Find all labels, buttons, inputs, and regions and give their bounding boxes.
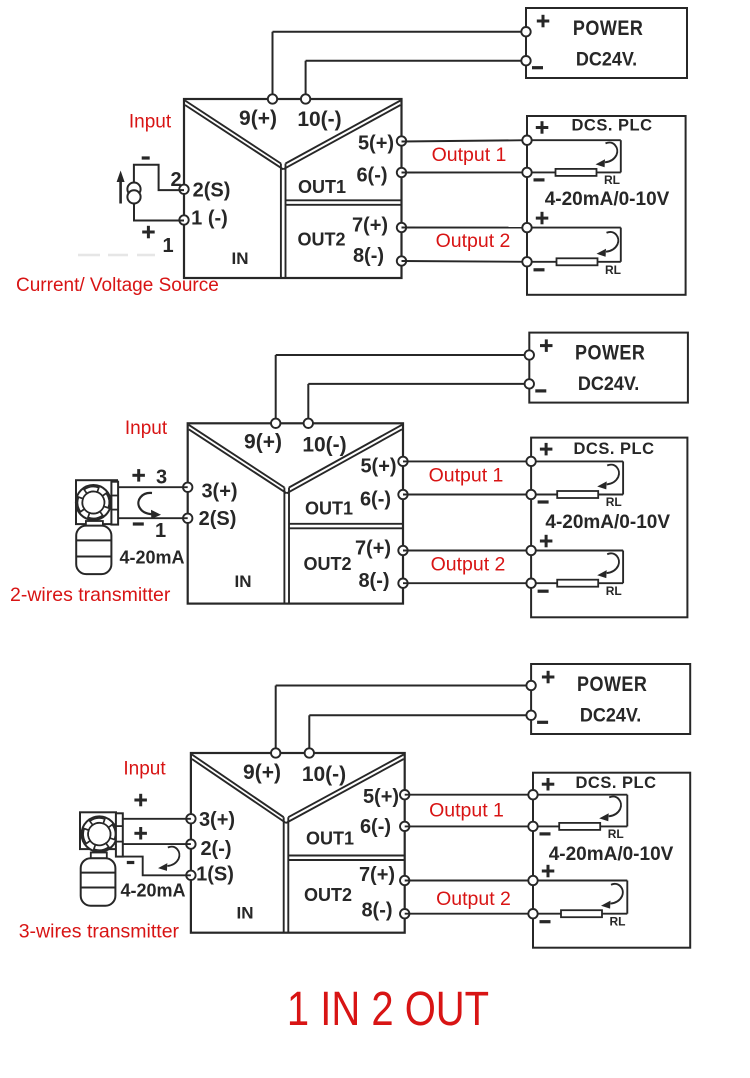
svg-text:IN: IN (237, 904, 254, 923)
svg-text:8(-): 8(-) (358, 570, 389, 592)
svg-text:1 (-): 1 (-) (191, 208, 228, 230)
svg-text:RL: RL (604, 173, 620, 187)
svg-text:OUT1: OUT1 (305, 499, 353, 519)
svg-text:7(+): 7(+) (352, 215, 388, 237)
svg-text:IN: IN (235, 572, 252, 591)
svg-text:8(-): 8(-) (353, 245, 384, 267)
svg-text:1 IN 2 OUT: 1 IN 2 OUT (287, 983, 489, 1036)
svg-text:Output 2: Output 2 (436, 230, 511, 252)
svg-text:Current/ Voltage Source: Current/ Voltage Source (16, 275, 219, 296)
svg-text:6(-): 6(-) (356, 165, 387, 187)
svg-text:1(S): 1(S) (196, 864, 234, 886)
svg-text:5(+): 5(+) (360, 456, 396, 478)
svg-text:3-wires transmitter: 3-wires transmitter (19, 921, 180, 943)
svg-text:Output 1: Output 1 (432, 144, 507, 166)
svg-text:IN: IN (232, 249, 249, 268)
svg-text:POWER: POWER (575, 341, 645, 365)
svg-text:5(+): 5(+) (358, 133, 394, 155)
svg-text:9(+): 9(+) (239, 107, 277, 130)
svg-text:2(-): 2(-) (200, 838, 231, 860)
svg-text:OUT1: OUT1 (306, 829, 354, 849)
svg-text:4-20mA/0-10V: 4-20mA/0-10V (549, 844, 674, 865)
svg-text:DC24V.: DC24V. (580, 705, 641, 727)
svg-text:4-20mA/0-10V: 4-20mA/0-10V (545, 512, 670, 533)
svg-text:2: 2 (170, 169, 181, 191)
svg-text:2(S): 2(S) (199, 508, 237, 530)
svg-text:POWER: POWER (577, 673, 647, 697)
svg-text:5(+): 5(+) (363, 786, 399, 808)
svg-text:6(-): 6(-) (360, 489, 391, 511)
svg-text:10(-): 10(-) (302, 763, 346, 786)
svg-text:DCS. PLC: DCS. PLC (573, 440, 654, 458)
svg-text:3(+): 3(+) (199, 809, 235, 831)
svg-text:7(+): 7(+) (355, 538, 391, 560)
svg-text:POWER: POWER (573, 17, 643, 41)
svg-text:9(+): 9(+) (244, 431, 282, 454)
svg-text:4-20mA/0-10V: 4-20mA/0-10V (545, 189, 670, 210)
svg-text:RL: RL (608, 827, 624, 841)
svg-text:Output 1: Output 1 (429, 465, 504, 487)
svg-text:4-20mA: 4-20mA (120, 881, 185, 901)
svg-text:3: 3 (156, 467, 167, 489)
svg-text:Output 2: Output 2 (436, 888, 511, 910)
svg-text:1: 1 (155, 520, 166, 542)
svg-text:10(-): 10(-) (297, 108, 341, 131)
svg-text:2-wires transmitter: 2-wires transmitter (10, 584, 171, 606)
svg-text:DC24V.: DC24V. (576, 49, 637, 71)
svg-text:8(-): 8(-) (361, 900, 392, 922)
svg-text:RL: RL (606, 584, 622, 598)
svg-text:Output 2: Output 2 (431, 554, 506, 576)
svg-text:RL: RL (605, 263, 621, 277)
svg-text:4-20mA: 4-20mA (119, 548, 184, 568)
svg-text:DCS. PLC: DCS. PLC (575, 774, 656, 792)
svg-text:10(-): 10(-) (302, 434, 346, 457)
svg-text:Input: Input (123, 759, 166, 780)
svg-text:2(S): 2(S) (193, 180, 231, 202)
svg-text:Output 1: Output 1 (429, 800, 504, 822)
svg-text:OUT2: OUT2 (303, 554, 351, 574)
svg-text:Input: Input (125, 418, 168, 439)
svg-text:3(+): 3(+) (201, 481, 237, 503)
svg-text:OUT2: OUT2 (297, 230, 345, 250)
svg-text:7(+): 7(+) (359, 864, 395, 886)
svg-text:OUT1: OUT1 (298, 177, 346, 197)
svg-text:RL: RL (610, 915, 626, 929)
svg-text:OUT2: OUT2 (304, 885, 352, 905)
svg-text:9(+): 9(+) (243, 761, 281, 784)
svg-text:RL: RL (606, 495, 622, 509)
svg-text:DCS. PLC: DCS. PLC (571, 117, 652, 135)
svg-text:1: 1 (162, 235, 173, 257)
svg-text:Input: Input (129, 112, 172, 133)
svg-text:DC24V.: DC24V. (578, 373, 639, 395)
svg-text:6(-): 6(-) (360, 816, 391, 838)
